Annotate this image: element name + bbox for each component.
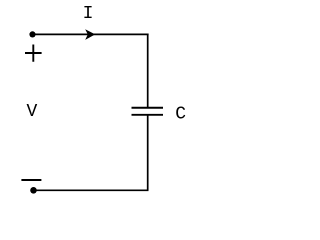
wire bottom horizontal	[34, 189, 149, 191]
wire right vertical upper	[147, 34, 149, 108]
svg-text:V: V	[26, 102, 37, 122]
capacitor C1 top plate	[132, 107, 164, 109]
node top-left junction dot	[29, 31, 35, 37]
capacitor C1 bottom plate	[132, 114, 164, 116]
svg-text:C: C	[175, 104, 186, 124]
wire right vertical lower	[147, 115, 149, 190]
minus terminal of source V	[21, 179, 41, 181]
wire top horizontal	[33, 33, 149, 35]
plus terminal of source V	[25, 45, 42, 62]
svg-text:I: I	[83, 4, 94, 24]
node bottom-left junction dot	[30, 187, 37, 194]
current arrow	[85, 29, 95, 40]
